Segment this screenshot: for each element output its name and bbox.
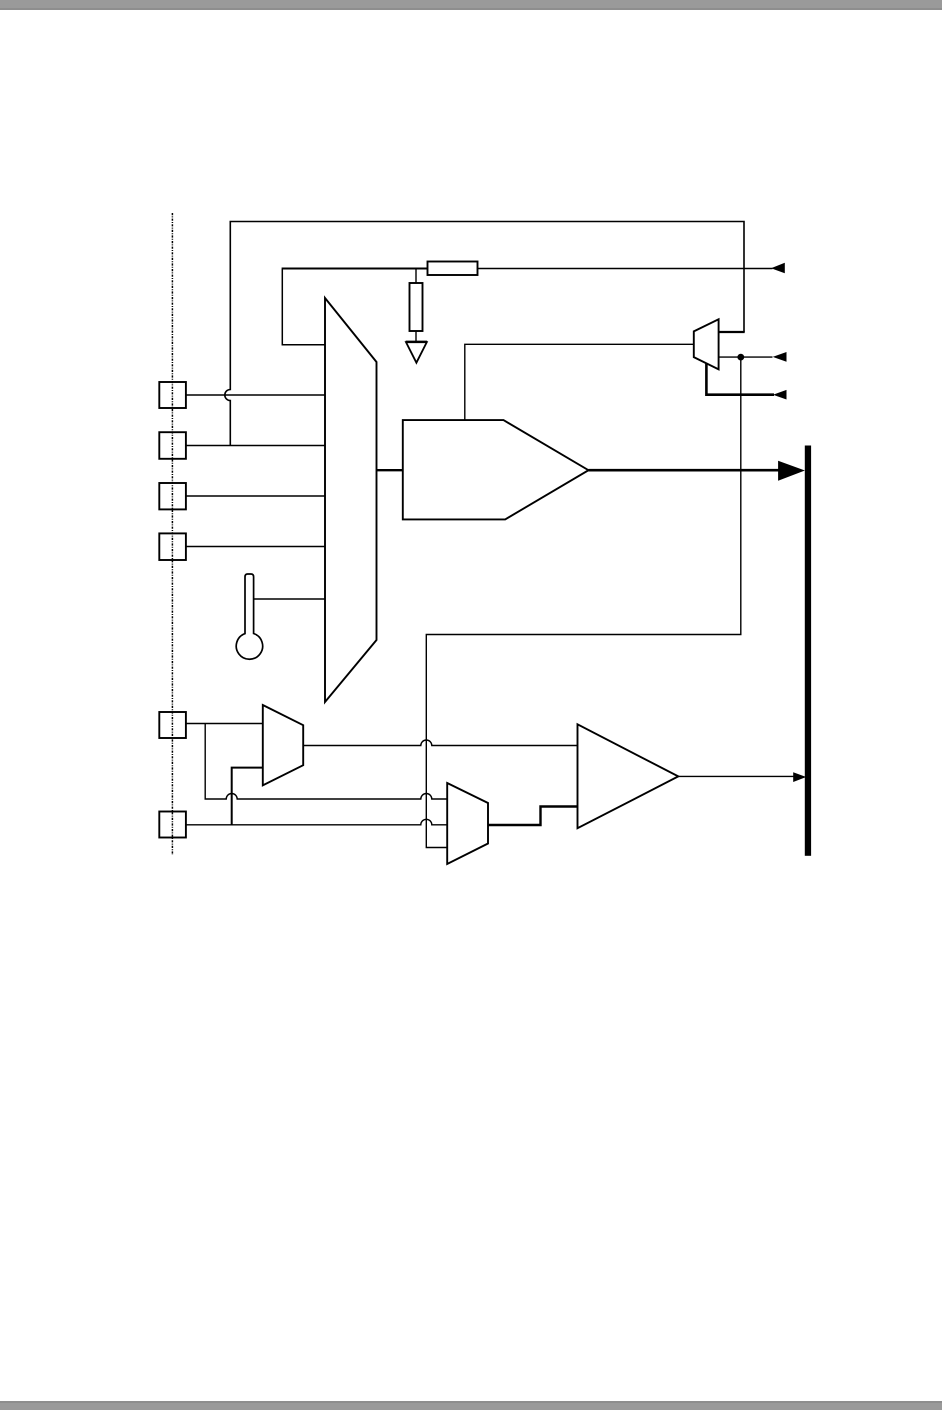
comparator U6 <box>578 724 679 828</box>
wire: box3 net to big mux input <box>186 495 325 497</box>
arrowhead into bus (converter output) <box>778 461 805 481</box>
mux U2 (reference selector, top right) <box>694 319 719 369</box>
mux U4 (comparator positive input selector) <box>263 705 303 785</box>
data bus (thick vertical bar) <box>805 446 811 856</box>
wire: mux U2 output down into converter top <box>465 344 694 420</box>
converter block U3 (pentagon) <box>403 420 589 519</box>
arrowhead A3 (supply input) <box>773 390 787 400</box>
wire: mux U2 top input stub (thick) <box>719 331 745 333</box>
wire: box5 branch down and right to mux U5 input 1, hops at x=231.7 and x=426.3 <box>205 724 447 800</box>
pin box P3 <box>159 483 186 509</box>
ground symbol <box>406 342 427 363</box>
wire: converter output to data bus (thick) <box>589 469 780 472</box>
wire: resistor R2 to ground <box>415 331 417 342</box>
wire: mux U2 bottom input riser to arrowhead A3 (thick) <box>706 363 774 394</box>
bottom page footer bar <box>0 1401 942 1403</box>
pin box P4 <box>159 533 186 560</box>
wire: comparator output to bus <box>678 775 795 777</box>
wire: feedback from node N1 down, across and down to mux U5 input <box>426 357 741 847</box>
arrowhead A1 (external reference input) <box>771 263 785 273</box>
arrowhead comparator output into bus <box>793 772 806 782</box>
temperature sensor TS1 (thermometer) <box>236 574 262 659</box>
mux U5 (comparator negative input selector) <box>447 783 488 864</box>
wire: big mux output to converter block <box>377 469 404 471</box>
wire: box2 net to big mux input <box>186 445 325 447</box>
wire: top feedback from box2 net up and over to mux U2, hop over box1 wire <box>225 222 744 446</box>
resistor R1 (horizontal) <box>428 262 478 276</box>
arrowhead A2 (supply input) <box>773 352 787 362</box>
wire: box6 net across to mux U5 input 2, hop at x=426.3 <box>186 819 447 825</box>
boundary dotted line (package pin boundary) <box>171 213 173 855</box>
ground symbol crossbar <box>406 341 427 343</box>
junction dot at node N1 <box>737 354 744 361</box>
wire: stub to resistor R2 <box>415 269 417 284</box>
wire: reference top rail to resistor R1 <box>282 268 428 270</box>
pin box P2 <box>159 432 186 459</box>
wire: resistor R1 to arrowhead A1 <box>478 268 773 270</box>
wire: box6 net to mux U4 input 2 (corner riser) <box>232 768 263 825</box>
resistor R2 (vertical) <box>410 283 423 331</box>
wire: box1 net to big mux input <box>186 394 325 396</box>
wire: box4 net to big mux input <box>186 546 325 548</box>
wire: temperature sensor to big mux input <box>254 598 326 600</box>
pin box P5 <box>159 712 186 738</box>
wire: mux U5 output jog to comparator negative input (thick) <box>488 807 578 826</box>
big mux U1 (analog input multiplexer) <box>325 298 377 702</box>
top page header bar <box>0 0 942 8</box>
pin box P6 <box>159 812 186 838</box>
pin box P1 <box>159 382 186 408</box>
wire: mux U4 output to comparator positive input, hop at x=426.3 <box>303 740 577 746</box>
wire: reference network riser to big mux input <box>282 269 325 345</box>
wire: mux U2 input B with junction to arrowhead A2 <box>719 356 773 358</box>
wire: box5 net to mux U4 input 1 <box>186 723 263 725</box>
